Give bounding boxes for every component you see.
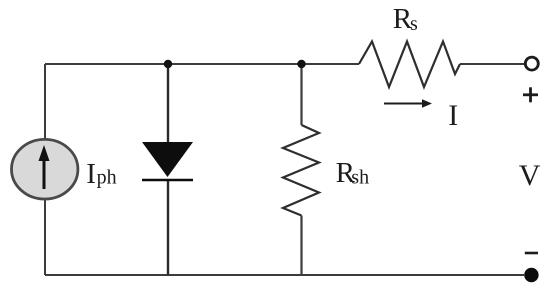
current direction arrow under Rs (384, 99, 432, 107)
svg-text:ph: ph (97, 167, 117, 189)
plus sign (523, 87, 538, 102)
svg-text:s: s (410, 13, 418, 35)
svg-text:I: I (86, 158, 96, 190)
node B: junction dot (Rsh branch, top) (297, 60, 305, 68)
wire: left vertical below current source (44, 199, 46, 275)
current source Iph (circle with up arrow) (12, 139, 78, 199)
wire: Rsh branch vertical (top) (300, 64, 302, 125)
svg-text:sh: sh (351, 167, 369, 189)
wire: bottom horizontal (45, 274, 524, 276)
svg-text:V: V (519, 159, 541, 192)
negative output terminal (filled dot) (524, 268, 538, 282)
node A: junction dot (diode branch, top) (164, 60, 172, 68)
resistor Rsh (vertical zigzag) (283, 125, 319, 216)
wire: from Rs to positive terminal (460, 63, 524, 65)
wire: Rsh branch vertical (bottom) (300, 216, 302, 276)
label Iph (86, 158, 116, 190)
svg-text:I: I (448, 99, 458, 132)
diode D (filled triangle + cathode bar) (142, 142, 193, 180)
resistor Rs (horizontal zigzag) (359, 42, 460, 88)
label Rsh (336, 157, 369, 189)
wire: top horizontal from left corner to Rs (45, 63, 359, 65)
positive output terminal (open circle) (525, 57, 538, 70)
wire: left vertical above current source (44, 64, 46, 139)
wire: diode branch vertical (bottom) (167, 180, 169, 275)
label Rs (393, 3, 418, 35)
wire: diode branch vertical (top) (167, 64, 169, 143)
minus sign (525, 252, 538, 255)
